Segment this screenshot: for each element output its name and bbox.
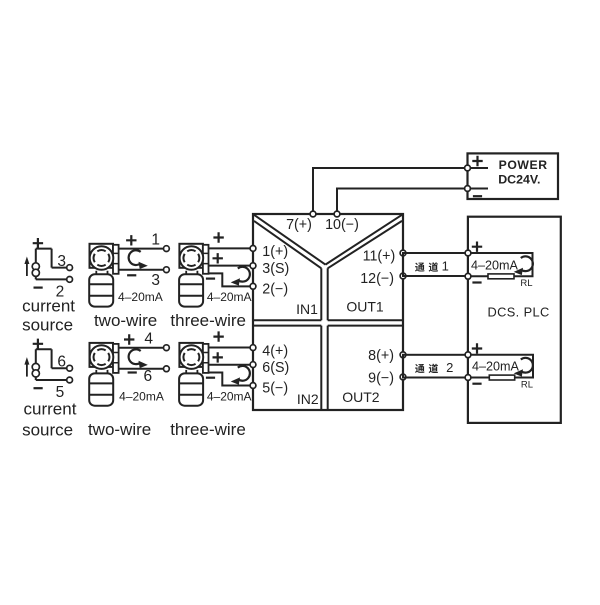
svg-text:3(S): 3(S): [262, 261, 289, 277]
terminal 5(-): [250, 383, 256, 389]
DCS ch1 + terminal: [465, 250, 471, 256]
svg-text:4: 4: [144, 330, 153, 347]
svg-text:4–20mA: 4–20mA: [471, 258, 519, 272]
B4 wire S to terminal 6: [209, 364, 251, 366]
svg-text:DCS. PLC: DCS. PLC: [487, 305, 549, 320]
svg-text:6: 6: [57, 354, 66, 371]
CS2 polarity +: [33, 339, 43, 349]
terminal 7(+): [310, 211, 316, 217]
B4 polarity + (mid): [213, 352, 223, 362]
DCS ch2 - terminal: [465, 375, 471, 381]
current source CS2: [24, 339, 72, 402]
DCS ch2 + terminal: [465, 352, 471, 358]
PS1 - terminal: [465, 186, 471, 192]
B1 transmitter symbol: [90, 244, 114, 268]
B3 current loop arrow: [129, 349, 141, 364]
svg-text:2(−): 2(−): [262, 282, 288, 298]
isolator in/out divider horizontal: [254, 320, 402, 325]
svg-text:1(+): 1(+): [262, 244, 288, 260]
svg-text:RL: RL: [521, 379, 533, 390]
B2 current loop arrow: [238, 267, 250, 282]
B2 wire S to terminal 3: [209, 265, 251, 267]
B4 current loop arrow: [238, 366, 250, 381]
svg-text:two-wire: two-wire: [94, 311, 157, 330]
CS1 terminal node 3: [67, 265, 73, 271]
terminal 1(+): [250, 246, 256, 252]
svg-text:source: source: [22, 316, 73, 335]
svg-text:4(+): 4(+): [262, 343, 288, 359]
B3 transmitter symbol: [90, 343, 114, 367]
transmitter B2 (three-wire, upper): [179, 232, 251, 306]
DCS PLC box: [468, 217, 561, 423]
resistor RL2: [489, 375, 514, 380]
power supply PS1 box: [468, 153, 559, 199]
B3 wire -: [119, 368, 164, 370]
resistor RL1: [488, 274, 514, 279]
svg-text:1: 1: [151, 232, 160, 249]
CS2 current source symbol circles: [32, 363, 39, 370]
label tongdao 2: [415, 364, 425, 373]
B1 wire -: [119, 269, 164, 271]
B2 wire + to terminal 1: [209, 247, 251, 249]
isolator channel divider vertical: [321, 268, 327, 409]
svg-text:RL: RL: [520, 278, 532, 289]
CS1 polarity -: [34, 287, 43, 289]
B4 wire - to terminal 5: [209, 373, 251, 386]
ch1 loop arrow: [521, 256, 533, 271]
svg-text:5(−): 5(−): [262, 381, 288, 397]
svg-text:1: 1: [442, 259, 449, 274]
terminal 8(+): [400, 352, 406, 358]
svg-text:2: 2: [446, 360, 453, 375]
label tongdao 1: [415, 263, 425, 272]
svg-text:three-wire: three-wire: [170, 311, 246, 330]
B1 terminal node 1: [164, 246, 170, 252]
transmitter B3 (two-wire, lower): [89, 330, 169, 405]
channel 1 wires/box (tongdao1): [403, 253, 468, 276]
svg-text:4–20mA: 4–20mA: [207, 290, 252, 304]
DCS ch1 - terminal: [465, 273, 471, 279]
CS2 loop wires: [36, 349, 67, 380]
channel 2 wires/box (tongdao2): [403, 355, 468, 378]
B1 current loop arrow: [129, 250, 141, 265]
ch2 loop arrow: [521, 358, 533, 373]
PS1 + terminal: [465, 165, 471, 171]
svg-text:three-wire: three-wire: [170, 420, 246, 439]
terminal 2(-): [250, 283, 256, 289]
svg-text:4–20mA: 4–20mA: [119, 389, 164, 403]
svg-text:current: current: [24, 400, 77, 419]
ch1 load loop: [471, 253, 533, 276]
B2 wire - to terminal 2: [209, 273, 251, 286]
svg-text:4–20mA: 4–20mA: [472, 360, 520, 374]
B4 polarity + (top): [213, 331, 223, 341]
svg-text:IN2: IN2: [297, 391, 319, 407]
CS1 terminal node 2: [67, 277, 73, 283]
CS1 polarity +: [33, 238, 43, 248]
B1 terminal node 3: [164, 267, 170, 273]
svg-text:IN1: IN1: [296, 301, 318, 317]
B1 polarity +: [126, 235, 136, 245]
terminal 11(+): [400, 250, 406, 256]
CS1 current direction arrow: [26, 261, 28, 276]
B2 polarity + (top): [213, 232, 223, 242]
B3 wire +: [119, 347, 164, 349]
ch2 load loop: [471, 355, 533, 378]
B1 wire +: [119, 248, 164, 250]
svg-text:DC24V.: DC24V.: [498, 173, 540, 187]
svg-text:7(+): 7(+): [286, 217, 312, 233]
svg-text:4–20mA: 4–20mA: [118, 290, 163, 304]
svg-text:10(−): 10(−): [325, 217, 359, 233]
wire terminal10 to POWER -: [337, 189, 465, 212]
B3 terminal node 4: [164, 345, 170, 351]
svg-text:source: source: [22, 421, 73, 440]
terminal 9(-): [400, 374, 406, 380]
svg-text:11(+): 11(+): [363, 249, 396, 265]
CS2 terminal node 5: [67, 377, 73, 383]
B2 transmitter symbol: [179, 244, 203, 268]
terminal 12(-): [400, 273, 406, 279]
terminal 6(S): [250, 362, 256, 368]
svg-text:POWER: POWER: [499, 158, 548, 172]
transmitter B4 (three-wire, lower): [179, 331, 251, 405]
svg-text:6: 6: [143, 368, 152, 385]
CS2 terminal node 6: [67, 365, 73, 371]
svg-text:OUT1: OUT1: [346, 299, 384, 315]
terminal 4(+): [250, 345, 256, 351]
current source CS1: [24, 238, 72, 301]
transmitter B1 (two-wire, upper): [89, 232, 169, 307]
svg-text:3: 3: [151, 272, 160, 289]
B3 polarity -: [128, 371, 137, 373]
B1 polarity -: [127, 274, 136, 276]
B4 polarity -: [206, 377, 215, 379]
svg-text:current: current: [22, 297, 75, 316]
B3 polarity +: [124, 334, 134, 344]
svg-text:8(+): 8(+): [368, 348, 394, 364]
CS2 polarity -: [34, 387, 43, 389]
B4 transmitter symbol: [179, 343, 203, 367]
CS1 loop wires: [36, 249, 67, 280]
B3 terminal node 6: [164, 366, 170, 372]
svg-text:OUT2: OUT2: [342, 389, 380, 405]
isolator module U1 outline: [253, 214, 403, 410]
wire terminal7 to POWER +: [313, 168, 465, 211]
CS1 current source symbol circles: [32, 263, 39, 270]
svg-text:4–20mA: 4–20mA: [207, 389, 252, 403]
svg-text:6(S): 6(S): [262, 360, 289, 376]
terminal 10(-): [334, 211, 340, 217]
isolator Y divider: [254, 215, 402, 265]
svg-text:9(−): 9(−): [368, 371, 394, 387]
svg-text:two-wire: two-wire: [88, 420, 151, 439]
B2 polarity -: [206, 278, 215, 280]
B2 polarity + (mid): [213, 253, 223, 263]
svg-text:3: 3: [57, 253, 66, 270]
terminal 3(S): [250, 263, 256, 269]
CS2 current direction arrow: [26, 362, 28, 377]
svg-text:12(−): 12(−): [360, 271, 394, 287]
B4 wire + to terminal 4: [209, 347, 251, 349]
